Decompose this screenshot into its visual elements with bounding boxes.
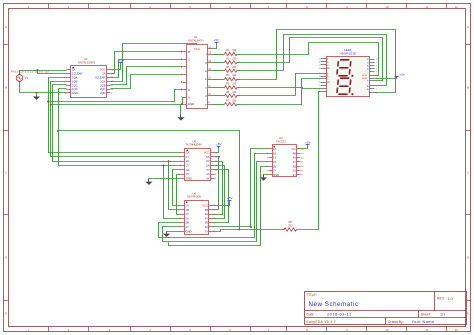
svg-text:1Y: 1Y <box>186 155 189 159</box>
svg-text:GND: GND <box>186 176 192 180</box>
svg-text:1QD: 1QD <box>72 87 78 91</box>
svg-text:1A: 1A <box>72 68 75 72</box>
svg-text:B: B <box>188 50 190 54</box>
svg-text:2Y: 2Y <box>186 225 189 229</box>
svg-text:A: A <box>467 25 469 29</box>
svg-text:4Y: 4Y <box>205 216 208 220</box>
svg-text:4A: 4A <box>206 172 209 176</box>
svg-text:C: C <box>467 171 469 175</box>
svg-text:DP: DP <box>327 68 331 70</box>
svg-text:Your Name: Your Name <box>412 319 435 324</box>
svg-text:B: B <box>5 86 7 90</box>
svg-text:1QB: 1QB <box>72 79 78 83</box>
svg-text:2QB: 2QB <box>100 83 106 87</box>
svg-text:DIG1: DIG1 <box>362 75 368 77</box>
svg-text:3A: 3A <box>205 225 208 229</box>
svg-text:+5V: +5V <box>305 140 310 144</box>
svg-text:GND: GND <box>188 102 194 106</box>
svg-text:2QD: 2QD <box>100 91 106 95</box>
svg-text:3A: 3A <box>186 168 189 172</box>
svg-text:4A: 4A <box>205 212 208 216</box>
svg-text:1.0: 1.0 <box>448 297 453 301</box>
svg-text:PULSE(0 5 5 1u 1u 0.5 1u): PULSE(0 5 5 1u 1u 0.5 1u) <box>11 70 49 74</box>
svg-text:3A: 3A <box>293 169 296 173</box>
svg-text:4Y: 4Y <box>206 176 209 180</box>
svg-text:1/1: 1/1 <box>440 313 445 317</box>
svg-text:330: 330 <box>232 99 237 102</box>
svg-text:V1: V1 <box>25 76 29 80</box>
svg-text:A: A <box>188 96 190 100</box>
svg-text:74LS32: 74LS32 <box>276 140 286 144</box>
svg-text:2A: 2A <box>273 160 276 164</box>
svg-text:2B: 2B <box>186 221 189 225</box>
svg-text:2Y: 2Y <box>273 169 276 173</box>
svg-text:4B: 4B <box>293 151 296 155</box>
svg-text:TITLE:: TITLE: <box>307 293 317 297</box>
svg-text:D: D <box>5 256 7 260</box>
svg-text:1B: 1B <box>273 151 276 155</box>
svg-text:1A: 1A <box>186 151 189 155</box>
svg-text:330: 330 <box>232 74 237 77</box>
svg-text:1QA: 1QA <box>72 76 78 80</box>
svg-text:New Schematic: New Schematic <box>309 301 359 308</box>
svg-text:+5V: +5V <box>119 58 124 62</box>
svg-text:330: 330 <box>288 224 293 228</box>
svg-text:4Y: 4Y <box>293 160 296 164</box>
svg-text:1B: 1B <box>186 208 189 212</box>
svg-text:D: D <box>188 88 190 92</box>
svg-text:1A: 1A <box>186 204 189 208</box>
svg-text:2Y: 2Y <box>186 164 189 168</box>
svg-text:C: C <box>5 171 7 175</box>
svg-text:1Y: 1Y <box>186 212 189 216</box>
svg-text:3Y: 3Y <box>205 229 208 233</box>
svg-text:3B: 3B <box>205 221 208 225</box>
svg-text:GND: GND <box>186 229 192 233</box>
svg-text:D: D <box>467 256 469 260</box>
svg-text:GND: GND <box>72 91 78 95</box>
svg-text:1A: 1A <box>273 147 276 151</box>
svg-text:330: 330 <box>232 58 237 61</box>
svg-text:Sheet:: Sheet: <box>421 312 431 316</box>
svg-text:330: 330 <box>232 91 237 94</box>
svg-text:DP: DP <box>327 82 331 84</box>
svg-text:5Y: 5Y <box>206 168 209 172</box>
svg-text:4B: 4B <box>205 208 208 212</box>
svg-text:E: E <box>467 311 469 315</box>
svg-text:REV: REV <box>437 297 445 301</box>
svg-text:A: A <box>5 25 7 29</box>
svg-text:1Y: 1Y <box>273 156 276 160</box>
svg-text:2A: 2A <box>102 72 105 76</box>
svg-text:SN74LS47N: SN74LS47N <box>188 39 204 43</box>
svg-text:2A: 2A <box>186 159 189 163</box>
svg-text:G: G <box>367 62 369 64</box>
svg-text:VCC: VCC <box>194 47 200 51</box>
svg-text:SN74HC04N: SN74HC04N <box>186 143 202 147</box>
svg-text:3Y: 3Y <box>293 173 296 177</box>
svg-text:3B: 3B <box>293 164 296 168</box>
svg-text:VCC: VCC <box>204 151 210 155</box>
svg-text:+5V: +5V <box>216 142 221 146</box>
svg-text:DIG2: DIG2 <box>362 78 368 80</box>
svg-text:3Y: 3Y <box>186 172 189 176</box>
svg-text:E: E <box>5 311 7 315</box>
svg-text:GND: GND <box>273 173 279 177</box>
svg-text:2CLEAR: 2CLEAR <box>95 76 106 80</box>
svg-text:5A: 5A <box>206 164 209 168</box>
svg-text:C: C <box>188 57 190 61</box>
svg-text:+5V: +5V <box>399 73 404 77</box>
svg-text:330: 330 <box>232 49 237 52</box>
svg-text:1QC: 1QC <box>72 83 78 87</box>
svg-text:Drawn By:: Drawn By: <box>388 320 404 324</box>
svg-text:2QA: 2QA <box>100 79 106 83</box>
svg-text:VCC: VCC <box>202 204 208 208</box>
svg-text:2QC: 2QC <box>100 87 106 91</box>
svg-text:R8: R8 <box>288 220 292 224</box>
svg-text:6A: 6A <box>206 155 209 159</box>
svg-text:B: B <box>467 86 469 90</box>
svg-text:2A: 2A <box>186 216 189 220</box>
svg-text:SN74LS390N: SN74LS390N <box>78 61 95 65</box>
svg-text:VCC: VCC <box>100 68 106 72</box>
svg-text:4A: 4A <box>293 156 296 160</box>
svg-text:HDSP-521E: HDSP-521E <box>340 52 356 56</box>
svg-text:SN74F08N: SN74F08N <box>187 195 201 199</box>
svg-text:EasyEDA V5.3.2: EasyEDA V5.3.2 <box>307 320 336 324</box>
svg-text:Vcc: Vcc <box>291 147 296 151</box>
svg-text:2018-03-11: 2018-03-11 <box>327 312 352 317</box>
svg-text:330: 330 <box>232 83 237 86</box>
svg-text:+5V: +5V <box>227 196 232 200</box>
svg-text:+5V: +5V <box>214 38 219 42</box>
svg-text:Date:: Date: <box>307 312 315 316</box>
svg-text:1CLEAR: 1CLEAR <box>72 72 83 76</box>
svg-text:330: 330 <box>232 66 237 69</box>
svg-text:2B: 2B <box>273 164 276 168</box>
svg-text:6Y: 6Y <box>206 159 209 163</box>
